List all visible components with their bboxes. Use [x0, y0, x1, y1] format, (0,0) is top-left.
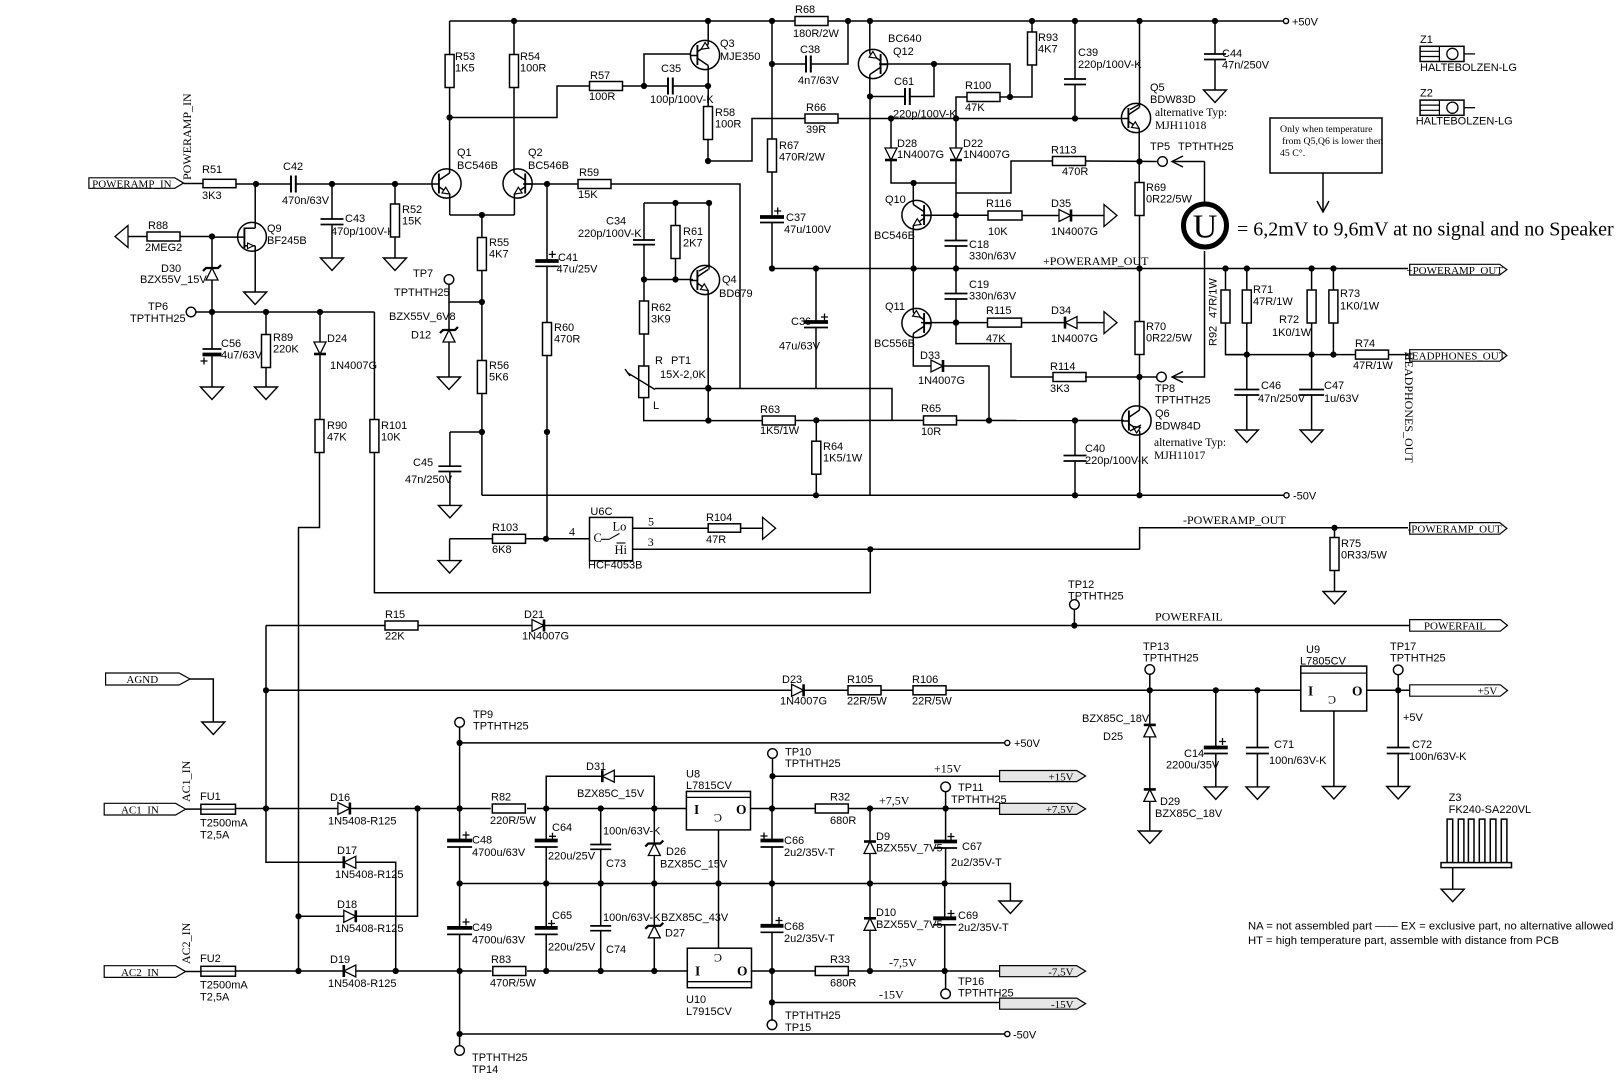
svg-text:L7915CV: L7915CV	[686, 1006, 733, 1018]
svg-text:BZX55V_7V5: BZX55V_7V5	[876, 843, 943, 855]
svg-text:BC640: BC640	[888, 33, 922, 45]
svg-text:BC546B: BC546B	[457, 160, 498, 172]
svg-text:1N5408-R125: 1N5408-R125	[328, 816, 397, 828]
svg-text:5K6: 5K6	[489, 372, 509, 384]
svg-text:Q11: Q11	[885, 301, 905, 313]
svg-text:2K7: 2K7	[683, 238, 703, 250]
svg-text:220u/25V: 220u/25V	[548, 851, 596, 863]
svg-text:U9: U9	[1306, 644, 1320, 656]
svg-text:100n/63V-K: 100n/63V-K	[1269, 755, 1327, 767]
svg-text:2u2/35V-T: 2u2/35V-T	[784, 847, 835, 859]
svg-text:1N4007G: 1N4007G	[918, 375, 965, 387]
svg-text:TP9: TP9	[473, 709, 493, 721]
svg-text:470R: 470R	[554, 334, 580, 346]
svg-text:47R: 47R	[706, 534, 726, 546]
svg-text:U8: U8	[686, 769, 700, 781]
svg-text:+50V: +50V	[1292, 17, 1319, 29]
svg-text:Q12: Q12	[893, 46, 914, 58]
svg-text:FK240-SA220VL: FK240-SA220VL	[1449, 804, 1532, 816]
svg-text:MJH11018: MJH11018	[1155, 120, 1207, 132]
svg-text:C67: C67	[962, 841, 982, 853]
svg-text:R15: R15	[385, 609, 405, 621]
svg-text:100R: 100R	[520, 63, 546, 75]
svg-text:1K0/1W: 1K0/1W	[1272, 327, 1312, 339]
svg-text:1K0/1W: 1K0/1W	[1340, 301, 1380, 313]
svg-text:220p/100V-K: 220p/100V-K	[1085, 455, 1149, 467]
svg-text:Lo: Lo	[613, 520, 627, 534]
svg-text:1K5: 1K5	[455, 63, 475, 75]
svg-text:C: C	[1328, 693, 1336, 707]
svg-text:C45: C45	[413, 457, 433, 469]
svg-text:BDW84D: BDW84D	[1155, 421, 1201, 433]
svg-text:680R: 680R	[830, 815, 856, 827]
svg-text:100n/63V-K: 100n/63V-K	[1409, 751, 1467, 763]
svg-text:R83: R83	[491, 954, 511, 966]
svg-text:15K: 15K	[578, 189, 598, 201]
svg-text:3K9: 3K9	[651, 314, 671, 326]
svg-text:2u2/35V-T: 2u2/35V-T	[951, 857, 1002, 869]
svg-text:MJE350: MJE350	[720, 51, 760, 63]
svg-text:R59: R59	[579, 167, 599, 179]
svg-text:1N4007G: 1N4007G	[780, 696, 827, 708]
svg-text:R73: R73	[1340, 288, 1360, 300]
svg-text:TPTHTH25: TPTHTH25	[394, 287, 450, 299]
svg-text:470R/2W: 470R/2W	[779, 152, 825, 164]
svg-text:D26: D26	[666, 846, 686, 858]
svg-text:TP5: TP5	[1150, 141, 1170, 153]
svg-text:C65: C65	[552, 910, 572, 922]
svg-text:BC546B: BC546B	[528, 160, 569, 172]
svg-text:R51: R51	[202, 164, 222, 176]
svg-text:C36: C36	[791, 316, 811, 328]
svg-text:TPTHTH25: TPTHTH25	[785, 1010, 841, 1022]
svg-text:4700u/63V: 4700u/63V	[472, 847, 526, 859]
svg-text:100p/100V-K: 100p/100V-K	[650, 94, 714, 106]
svg-text:R100: R100	[965, 80, 991, 92]
svg-text:C72: C72	[1412, 739, 1432, 751]
svg-text:R105: R105	[847, 674, 873, 686]
svg-text:T2500mA: T2500mA	[200, 818, 248, 830]
svg-text:0R33/5W: 0R33/5W	[1341, 550, 1387, 562]
svg-text:HALTEBOLZEN-LG: HALTEBOLZEN-LG	[1420, 62, 1517, 74]
svg-text:C34: C34	[606, 216, 626, 228]
svg-text:47K: 47K	[986, 333, 1006, 345]
svg-text:15X-2,0K: 15X-2,0K	[660, 369, 707, 381]
svg-text:C43: C43	[345, 213, 365, 225]
svg-text:alternative Typ:: alternative Typ:	[1154, 437, 1226, 449]
svg-text:Q5: Q5	[1150, 82, 1165, 94]
svg-text:C39: C39	[1078, 47, 1098, 59]
svg-text:BZX85C_15V: BZX85C_15V	[577, 788, 645, 800]
svg-text:R92: R92	[1208, 326, 1220, 346]
svg-text:R75: R75	[1341, 538, 1361, 550]
svg-text:1N5408-R125: 1N5408-R125	[335, 869, 404, 881]
svg-text:45 C°.: 45 C°.	[1280, 148, 1305, 159]
svg-text:1K5/1W: 1K5/1W	[760, 425, 800, 437]
svg-text:R66: R66	[806, 102, 826, 114]
svg-text:330n/63V: 330n/63V	[969, 291, 1017, 303]
svg-text:1N4007G: 1N4007G	[897, 149, 944, 161]
svg-text:R116: R116	[986, 198, 1011, 210]
svg-text:U6C: U6C	[590, 506, 612, 518]
svg-text:470R/5W: 470R/5W	[490, 978, 536, 990]
svg-text:HEADPHONES_OUT: HEADPHONES_OUT	[1404, 351, 1506, 363]
svg-text:Q10: Q10	[885, 194, 906, 206]
svg-text:R33: R33	[830, 954, 850, 966]
svg-text:R74: R74	[1355, 338, 1375, 350]
svg-text:5: 5	[648, 515, 654, 529]
svg-text:TP8: TP8	[1155, 383, 1175, 395]
svg-text:4: 4	[569, 525, 575, 539]
svg-text:C48: C48	[472, 835, 492, 847]
svg-text:from Q5,Q6 is lower then: from Q5,Q6 is lower then	[1282, 136, 1383, 147]
svg-text:C47: C47	[1324, 380, 1344, 392]
svg-text:TPTHTH25: TPTHTH25	[785, 758, 841, 770]
svg-text:O: O	[1352, 684, 1363, 699]
svg-text:D27: D27	[665, 928, 685, 940]
svg-text:Q9: Q9	[267, 223, 282, 235]
svg-text:R113: R113	[1051, 145, 1076, 157]
svg-text:R71: R71	[1253, 284, 1273, 296]
svg-text:I: I	[694, 802, 699, 817]
svg-text:BZX85C_18V: BZX85C_18V	[1155, 808, 1223, 820]
svg-text:47R/1W: 47R/1W	[1208, 278, 1220, 318]
svg-text:T2500mA: T2500mA	[200, 980, 248, 992]
svg-text:L: L	[653, 400, 659, 412]
svg-text:L7815CV: L7815CV	[686, 780, 733, 792]
svg-text:470R: 470R	[1062, 166, 1088, 178]
svg-text:FU1: FU1	[200, 791, 221, 803]
svg-text:R54: R54	[520, 51, 540, 63]
svg-text:R57: R57	[590, 70, 610, 82]
svg-text:0R22/5W: 0R22/5W	[1146, 194, 1192, 206]
svg-text:R106: R106	[912, 674, 938, 686]
svg-text:D9: D9	[876, 831, 890, 843]
svg-text:2u2/35V-T: 2u2/35V-T	[958, 922, 1009, 934]
svg-text:1N4007G: 1N4007G	[330, 360, 377, 372]
svg-text:BF245B: BF245B	[267, 235, 307, 247]
svg-text:R104: R104	[706, 512, 732, 524]
svg-text:220u/25V: 220u/25V	[548, 942, 596, 954]
svg-text:TPTHTH25: TPTHTH25	[473, 721, 529, 733]
svg-text:3K3: 3K3	[1050, 383, 1070, 395]
svg-text:R101: R101	[381, 420, 407, 432]
svg-text:4u7/63V: 4u7/63V	[221, 350, 263, 362]
svg-text:TPTHTH25: TPTHTH25	[1155, 395, 1211, 407]
svg-text:22K: 22K	[385, 631, 405, 643]
svg-text:39R: 39R	[806, 124, 826, 136]
svg-text:C61: C61	[894, 76, 914, 88]
svg-text:R67: R67	[779, 140, 799, 152]
svg-text:R55: R55	[489, 237, 509, 249]
svg-text:BD679: BD679	[719, 288, 753, 300]
svg-text:3: 3	[648, 535, 654, 549]
svg-text:TPTHTH25: TPTHTH25	[472, 1052, 528, 1064]
svg-text:-POWERAMP_OUT: -POWERAMP_OUT	[1408, 524, 1502, 536]
svg-text:R60: R60	[554, 322, 574, 334]
svg-text:+POWERAMP_OUT: +POWERAMP_OUT	[1406, 265, 1503, 277]
svg-text:C71: C71	[1274, 739, 1294, 751]
svg-text:1N4007G: 1N4007G	[522, 631, 569, 643]
svg-text:-POWERAMP_OUT: -POWERAMP_OUT	[1183, 513, 1286, 527]
svg-text:MJH11017: MJH11017	[1154, 450, 1206, 462]
svg-text:47R/1W: 47R/1W	[1253, 296, 1293, 308]
svg-text:L7805CV: L7805CV	[1300, 656, 1347, 668]
svg-text:NA = not assembled part —— EX: NA = not assembled part —— EX = exclusiv…	[1248, 921, 1613, 933]
svg-text:220R/5W: 220R/5W	[490, 815, 536, 827]
svg-text:TP16: TP16	[958, 976, 984, 988]
svg-text:15K: 15K	[402, 216, 422, 228]
svg-text:C41: C41	[558, 252, 578, 264]
svg-text:TPTHTH25: TPTHTH25	[1143, 653, 1199, 665]
svg-text:D21: D21	[524, 609, 544, 621]
svg-text:= 6,2mV to 9,6mV at no signal: = 6,2mV to 9,6mV at no signal and no Spe…	[1237, 219, 1614, 241]
svg-text:R70: R70	[1146, 321, 1166, 333]
svg-text:TP14: TP14	[472, 1064, 498, 1076]
svg-text:BZX55V_6V8: BZX55V_6V8	[389, 311, 456, 323]
svg-text:+15V: +15V	[934, 762, 962, 776]
svg-text:3K3: 3K3	[202, 190, 222, 202]
svg-text:4700u/63V: 4700u/63V	[472, 935, 526, 947]
svg-text:D16: D16	[330, 792, 350, 804]
svg-text:AC1_IN: AC1_IN	[179, 760, 193, 802]
svg-text:Z1: Z1	[1420, 34, 1433, 46]
svg-text:47K: 47K	[965, 102, 985, 114]
svg-text:TPTHTH25: TPTHTH25	[951, 794, 1007, 806]
svg-text:R56: R56	[489, 360, 509, 372]
svg-text:0R22/5W: 0R22/5W	[1146, 333, 1192, 345]
svg-text:POWERFAIL: POWERFAIL	[1424, 621, 1486, 633]
svg-text:10R: 10R	[921, 426, 941, 438]
svg-text:Hi: Hi	[615, 543, 628, 557]
svg-text:Q1: Q1	[457, 147, 472, 159]
svg-text:-15V: -15V	[879, 988, 904, 1002]
svg-text:BC546B: BC546B	[874, 230, 915, 242]
svg-text:TP6: TP6	[148, 301, 168, 313]
svg-text:D18: D18	[337, 899, 357, 911]
svg-text:R61: R61	[683, 226, 703, 238]
svg-text:220p/100V-K: 220p/100V-K	[1078, 59, 1142, 71]
svg-text:D19: D19	[330, 954, 350, 966]
svg-text:2MEG2: 2MEG2	[145, 242, 182, 254]
svg-text:TP10: TP10	[785, 747, 811, 759]
svg-text:220p/100V-K: 220p/100V-K	[578, 228, 642, 240]
svg-text:HEADPHONES_OUT: HEADPHONES_OUT	[1402, 352, 1416, 463]
svg-text:Only when temperature: Only when temperature	[1280, 124, 1373, 135]
svg-text:D10: D10	[876, 907, 896, 919]
svg-text:330n/63V: 330n/63V	[969, 251, 1017, 263]
svg-text:R62: R62	[651, 302, 671, 314]
svg-text:+50V: +50V	[1014, 738, 1041, 750]
svg-text:D24: D24	[327, 333, 347, 345]
svg-text:R72: R72	[1279, 314, 1299, 326]
svg-text:100n/63V-K: 100n/63V-K	[603, 912, 661, 924]
svg-text:T2,5A: T2,5A	[200, 830, 230, 842]
svg-text:D17: D17	[337, 845, 357, 857]
svg-text:C: C	[714, 951, 722, 965]
svg-text:1N4007G: 1N4007G	[1051, 333, 1098, 345]
svg-text:FU2: FU2	[200, 953, 221, 965]
svg-text:BC556B: BC556B	[874, 338, 915, 350]
svg-text:I: I	[1308, 684, 1313, 699]
svg-text:220K: 220K	[273, 344, 299, 356]
svg-text:R52: R52	[402, 204, 422, 216]
svg-text:HCF4053B: HCF4053B	[588, 560, 642, 572]
svg-text:R58: R58	[715, 107, 735, 119]
svg-text:C: C	[594, 531, 602, 545]
svg-text:D12: D12	[411, 330, 431, 342]
svg-text:R89: R89	[273, 332, 293, 344]
svg-text:U10: U10	[686, 994, 706, 1006]
svg-text:R114: R114	[1050, 361, 1075, 373]
svg-text:C44: C44	[1222, 48, 1242, 60]
svg-text:+POWERAMP_OUT: +POWERAMP_OUT	[1043, 254, 1149, 268]
svg-text:D34: D34	[1051, 305, 1071, 317]
svg-text:TPTHTH25: TPTHTH25	[1068, 591, 1124, 603]
svg-text:C38: C38	[800, 44, 820, 56]
svg-text:R53: R53	[455, 51, 475, 63]
svg-text:D23: D23	[782, 674, 802, 686]
svg-text:O: O	[737, 964, 748, 979]
svg-text:6K8: 6K8	[492, 544, 512, 556]
svg-text:1N5408-R125: 1N5408-R125	[328, 978, 397, 990]
svg-text:100n/63V-K: 100n/63V-K	[603, 826, 661, 838]
svg-text:C69: C69	[958, 910, 978, 922]
svg-text:470n/63V: 470n/63V	[282, 195, 330, 207]
svg-text:+7,5V: +7,5V	[879, 794, 910, 808]
svg-text:TP7: TP7	[413, 268, 433, 280]
svg-text:C35: C35	[661, 63, 681, 75]
svg-text:C18: C18	[969, 239, 989, 251]
svg-text:100R: 100R	[589, 91, 615, 103]
svg-text:TPTHTH25: TPTHTH25	[130, 313, 186, 325]
svg-text:1N4007G: 1N4007G	[1051, 226, 1098, 238]
svg-text:R88: R88	[148, 220, 168, 232]
svg-text:C68: C68	[784, 921, 804, 933]
svg-text:BDW83D: BDW83D	[1150, 94, 1196, 106]
svg-text:TP17: TP17	[1390, 641, 1416, 653]
svg-text:2200u/35V: 2200u/35V	[1166, 760, 1220, 772]
svg-text:+5V: +5V	[1478, 686, 1498, 698]
svg-text:POWERAMP_IN: POWERAMP_IN	[92, 178, 172, 190]
svg-text:+15V: +15V	[1048, 771, 1073, 783]
svg-text:Q2: Q2	[528, 147, 543, 159]
svg-text:C49: C49	[472, 922, 492, 934]
svg-text:-50V: -50V	[1013, 1030, 1037, 1042]
svg-text:AC2_IN: AC2_IN	[179, 922, 193, 964]
svg-text:D29: D29	[1160, 796, 1180, 808]
svg-text:4K7: 4K7	[489, 249, 509, 261]
svg-text:R82: R82	[491, 792, 511, 804]
svg-text:R115: R115	[986, 305, 1011, 317]
svg-text:HT = high temperature part, as: HT = high temperature part, assemble wit…	[1248, 935, 1559, 947]
svg-text:220p/100V-K: 220p/100V-K	[893, 109, 957, 121]
svg-text:R: R	[655, 355, 663, 367]
svg-text:22R/5W: 22R/5W	[912, 696, 952, 708]
svg-text:47n/250V: 47n/250V	[405, 474, 453, 486]
svg-text:D31: D31	[586, 761, 606, 773]
svg-text:AGND: AGND	[126, 674, 158, 686]
svg-text:R63: R63	[760, 404, 780, 416]
svg-text:AC1_IN: AC1_IN	[121, 804, 159, 816]
svg-text:C46: C46	[1261, 380, 1281, 392]
svg-text:47n/250V: 47n/250V	[1258, 393, 1306, 405]
svg-text:-15V: -15V	[1051, 999, 1074, 1011]
svg-text:47u/100V: 47u/100V	[784, 224, 832, 236]
svg-text:47R/1W: 47R/1W	[1353, 360, 1393, 372]
svg-text:PT1: PT1	[671, 355, 691, 367]
svg-text:-7,5V: -7,5V	[889, 956, 917, 970]
svg-text:TP11: TP11	[958, 782, 983, 794]
svg-text:R68: R68	[795, 4, 815, 16]
svg-text:R93: R93	[1038, 32, 1058, 44]
svg-text:BZX55V_15V: BZX55V_15V	[140, 274, 207, 286]
svg-text:470p/100V-K: 470p/100V-K	[331, 226, 395, 238]
svg-text:10K: 10K	[988, 226, 1008, 238]
svg-text:TPTHTH25: TPTHTH25	[1390, 653, 1446, 665]
svg-text:R69: R69	[1146, 182, 1166, 194]
svg-text:HALTEBOLZEN-LG: HALTEBOLZEN-LG	[1416, 116, 1513, 128]
svg-text:1K5/1W: 1K5/1W	[823, 453, 863, 465]
svg-text:-7,5V: -7,5V	[1048, 966, 1073, 978]
svg-text:2u2/35V-T: 2u2/35V-T	[784, 933, 835, 945]
svg-text:C19: C19	[969, 279, 989, 291]
svg-text:TP15: TP15	[785, 1022, 811, 1034]
svg-text:I: I	[695, 964, 700, 979]
svg-text:C14: C14	[1184, 748, 1204, 760]
svg-text:Q6: Q6	[1155, 408, 1170, 420]
svg-text:1u/63V: 1u/63V	[1324, 393, 1360, 405]
svg-text:4n7/63V: 4n7/63V	[798, 75, 840, 87]
svg-text:+5V: +5V	[1403, 712, 1424, 724]
svg-text:4K7: 4K7	[1038, 44, 1058, 56]
svg-text:POWERAMP_IN: POWERAMP_IN	[180, 93, 194, 180]
svg-text:D25: D25	[1103, 731, 1123, 743]
svg-text:Z3: Z3	[1449, 792, 1462, 804]
svg-text:180R/2W: 180R/2W	[793, 28, 839, 40]
svg-text:R103: R103	[492, 522, 518, 534]
svg-text:AC2_IN: AC2_IN	[121, 967, 159, 979]
svg-text:R32: R32	[830, 792, 850, 804]
svg-text:+7,5V: +7,5V	[1046, 804, 1074, 816]
svg-text:alternative Typ:: alternative Typ:	[1155, 107, 1227, 119]
svg-text:C74: C74	[606, 944, 626, 956]
svg-text:TP13: TP13	[1143, 641, 1169, 653]
svg-text:R65: R65	[921, 403, 941, 415]
svg-text:1N5408-R125: 1N5408-R125	[335, 923, 404, 935]
svg-text:Q4: Q4	[722, 274, 737, 286]
svg-text:C42: C42	[283, 161, 303, 173]
svg-text:1N4007G: 1N4007G	[963, 149, 1010, 161]
svg-text:TPTHTH25: TPTHTH25	[1178, 141, 1234, 153]
svg-text:10K: 10K	[381, 432, 401, 444]
svg-text:C66: C66	[784, 835, 804, 847]
svg-text:D35: D35	[1051, 198, 1071, 210]
svg-text:Q3: Q3	[720, 38, 735, 50]
svg-text:T2,5A: T2,5A	[200, 992, 230, 1004]
svg-text:POWERFAIL: POWERFAIL	[1155, 610, 1223, 624]
svg-text:C56: C56	[221, 338, 241, 350]
svg-text:C64: C64	[552, 822, 572, 834]
svg-text:22R/5W: 22R/5W	[847, 696, 887, 708]
svg-text:-50V: -50V	[1293, 491, 1317, 503]
svg-text:R90: R90	[327, 420, 347, 432]
svg-text:47u/25V: 47u/25V	[557, 264, 599, 276]
svg-text:47K: 47K	[327, 432, 347, 444]
svg-text:TP12: TP12	[1068, 579, 1094, 591]
svg-text:O: O	[736, 802, 747, 817]
svg-text:BZX85C_15V: BZX85C_15V	[660, 859, 728, 871]
